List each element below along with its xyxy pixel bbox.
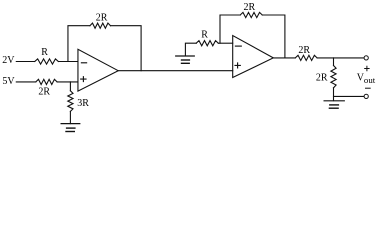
svg-text:2R: 2R (316, 73, 328, 84)
svg-text:2R: 2R (244, 2, 256, 13)
svg-text:5V: 5V (2, 76, 15, 87)
svg-text:R: R (41, 47, 48, 58)
svg-text:2R: 2R (96, 13, 108, 24)
svg-text:Vout: Vout (357, 73, 376, 85)
svg-text:2R: 2R (38, 87, 50, 98)
svg-text:2R: 2R (298, 45, 310, 56)
svg-text:R: R (201, 30, 208, 41)
svg-text:2V: 2V (2, 55, 15, 66)
svg-text:3R: 3R (77, 98, 89, 109)
